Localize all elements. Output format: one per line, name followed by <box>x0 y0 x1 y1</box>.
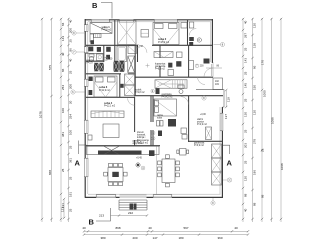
window left W2 <box>84 47 89 54</box>
window right W12 <box>220 113 224 131</box>
svg-text:25: 25 <box>260 148 264 152</box>
soba3 label <box>99 85 111 92</box>
right dimension chain line 5 <box>280 18 284 222</box>
circled marker 6 left <box>71 90 85 94</box>
wc room door arc <box>189 29 196 36</box>
svg-text:soba: soba <box>157 118 163 120</box>
room1 tall cabinet <box>90 34 94 42</box>
svg-text:203: 203 <box>243 143 247 148</box>
svg-text:575: 575 <box>48 65 52 70</box>
bath machines dark pair <box>114 61 125 72</box>
outer wall bottom <box>85 196 223 198</box>
svg-text:25: 25 <box>243 129 247 133</box>
left dimension chain line 3 <box>60 18 65 222</box>
interior wall: top rooms bottom y45 <box>86 44 138 46</box>
svg-text:B: B <box>89 218 95 227</box>
left dimension chain line 4 <box>67 18 72 222</box>
svg-text:40: 40 <box>61 52 65 56</box>
svg-text:garderoba: garderoba <box>155 65 166 68</box>
svg-text:P=2,9: P=2,9 <box>87 63 94 65</box>
svg-text:garderoba: garderoba <box>194 142 205 145</box>
guest room dresser dark <box>157 119 177 127</box>
dining floor edge line <box>156 146 158 194</box>
outer wall right upper block <box>211 19 213 63</box>
window left W5 <box>84 158 89 177</box>
door dim 7-200 <box>195 64 222 68</box>
svg-text:40: 40 <box>243 208 247 212</box>
svg-text:25: 25 <box>243 47 247 51</box>
window left W3 <box>84 79 89 87</box>
svg-text:88: 88 <box>260 194 264 198</box>
outer wall right lower inner face <box>219 107 221 194</box>
right dimension chain line 3 <box>260 18 266 222</box>
window top W8 <box>154 19 178 23</box>
terrace door right <box>204 64 214 77</box>
interior wall: laundry bottom / soba3 top y73.5 <box>86 73 121 75</box>
corridor small box <box>177 52 183 58</box>
entry box <box>213 78 223 90</box>
corridor door 1-90 <box>136 45 147 53</box>
svg-text:254: 254 <box>61 85 65 90</box>
interior wall: room2 right x186 <box>187 20 189 45</box>
interior wall: bath dividers <box>103 45 105 62</box>
small circles markers mid <box>151 89 154 93</box>
circled marker 8 outside right wall <box>214 42 225 46</box>
soba4 wardrobe strip <box>91 111 124 118</box>
circled marker 8 terrace <box>202 96 206 100</box>
svg-text:25: 25 <box>61 168 65 172</box>
small side table with chairs <box>177 149 189 156</box>
interior wall: room1/room2 divider <box>114 20 116 45</box>
circled marker 8 right top <box>197 38 201 42</box>
svg-text:180: 180 <box>178 236 183 240</box>
left dimension chain line 2 <box>48 18 53 222</box>
outer wall top inner face <box>88 21 211 23</box>
svg-text:25: 25 <box>69 39 73 43</box>
closet garderoba X <box>118 21 137 45</box>
svg-text:137: 137 <box>224 114 228 119</box>
porch door bottom <box>120 195 147 198</box>
svg-text:170: 170 <box>260 60 264 65</box>
svg-text:40: 40 <box>243 20 247 24</box>
stairs <box>155 80 187 88</box>
wc room fixtures dark <box>189 37 194 46</box>
corridor closet X tall <box>125 74 135 96</box>
outer wall left <box>84 19 86 198</box>
shaft lower dark box <box>120 84 123 88</box>
laundry machines <box>87 59 104 71</box>
svg-text:120: 120 <box>253 23 257 28</box>
soba3 bed <box>94 76 117 97</box>
kitchen label <box>133 140 144 146</box>
svg-text:232: 232 <box>128 211 133 215</box>
window left W1 <box>84 25 89 32</box>
svg-text:200: 200 <box>69 84 73 89</box>
svg-text:254: 254 <box>69 114 73 119</box>
room2 nightstand left <box>141 30 149 38</box>
entry door arc <box>198 77 206 85</box>
svg-text:278: 278 <box>253 139 257 144</box>
svg-text:B: B <box>92 1 98 10</box>
svg-text:130: 130 <box>243 112 247 117</box>
guest room label <box>162 93 174 99</box>
wc1 toilet <box>97 47 101 52</box>
window bottom W10 <box>96 195 116 198</box>
wc2 toilet <box>106 47 111 52</box>
porch dim 121 <box>61 198 66 219</box>
interior wall: guest room divider x188.5 <box>188 96 190 143</box>
svg-text:soba 2: soba 2 <box>158 37 167 41</box>
bottom dimension chain line 1 <box>82 226 249 232</box>
svg-text:prostor: prostor <box>197 121 204 124</box>
svg-text:186: 186 <box>253 170 257 175</box>
soba4 door arc <box>128 98 135 105</box>
svg-text:213: 213 <box>99 214 104 218</box>
wardrobe column X boxes <box>212 144 222 185</box>
circled marker electrical right <box>223 178 232 182</box>
left wall cabinet box <box>88 135 92 140</box>
corridor sink dark <box>156 89 160 95</box>
svg-text:1000: 1000 <box>263 90 267 97</box>
svg-text:soba 4: soba 4 <box>104 101 113 105</box>
interior wall: corridor/guest double <box>150 96 152 123</box>
svg-text:86: 86 <box>253 65 257 69</box>
svg-text:191: 191 <box>69 192 73 197</box>
svg-text:100: 100 <box>69 130 73 135</box>
soba3 dresser dark <box>89 90 93 95</box>
soba4 table <box>103 124 119 138</box>
right dimension chain line 1 <box>242 18 248 222</box>
interior wall: soba4 right x134.5 <box>134 97 136 132</box>
svg-text:147: 147 <box>152 236 157 240</box>
interior wall: right corridor bottom y77 <box>135 76 188 78</box>
svg-text:25: 25 <box>69 208 73 212</box>
dining table 2 with chairs <box>158 155 180 187</box>
svg-text:+0,45: +0,45 <box>136 158 142 160</box>
bottom dimension chain line 2 <box>83 233 249 240</box>
svg-text:40: 40 <box>234 226 238 230</box>
terrace outline <box>196 62 231 119</box>
outer wall top <box>85 19 213 21</box>
outer wall bottom inner face <box>88 193 221 195</box>
interior wall: corridor left x135 <box>134 45 136 96</box>
svg-text:gostinjska: gostinjska <box>162 93 173 96</box>
soba3 nightstand dark <box>89 77 93 82</box>
svg-text:40: 40 <box>148 226 152 230</box>
svg-text:25: 25 <box>69 176 73 180</box>
svg-text:praona: praona <box>87 59 95 62</box>
svg-text:20: 20 <box>69 100 73 104</box>
light cross <box>146 64 150 68</box>
wc1 split wall <box>86 52 104 54</box>
window left W4 <box>84 120 89 134</box>
svg-text:150: 150 <box>253 85 257 90</box>
svg-text:360: 360 <box>217 236 222 240</box>
lower hall label <box>194 142 205 148</box>
circled marker 9 living <box>141 166 145 170</box>
section marker B bottom <box>89 208 111 227</box>
circled marker 4 living <box>136 163 140 167</box>
svg-text:25: 25 <box>69 145 73 149</box>
window bottom W11 <box>153 195 172 198</box>
svg-text:380: 380 <box>100 236 105 240</box>
outer wall right upper inner face <box>210 22 212 62</box>
wc bottom sink dark <box>204 59 210 64</box>
svg-text:88: 88 <box>253 202 257 206</box>
outer wall right lower block <box>221 107 223 198</box>
bath tub vertical <box>117 46 127 62</box>
svg-text:1078: 1078 <box>39 111 43 118</box>
svg-text:287: 287 <box>243 33 247 38</box>
circled markers stacked left <box>151 131 155 140</box>
right dimension chain line 4 <box>270 18 274 222</box>
corridor dresser with X <box>154 52 173 58</box>
section marker A right <box>223 145 233 167</box>
interior wall: soba3 right x120 <box>119 74 121 98</box>
svg-text:88: 88 <box>243 193 247 197</box>
left dimension chain line 1 <box>39 18 44 222</box>
svg-text:40: 40 <box>82 226 86 230</box>
dark speaker box <box>158 131 162 137</box>
interior wall: corridor top y62 <box>86 60 104 62</box>
guest room desk <box>181 128 187 139</box>
interior wall: lower rooms top y95.5 <box>134 95 223 97</box>
svg-text:P=11,9 m2: P=11,9 m2 <box>99 90 111 92</box>
svg-text:381: 381 <box>69 158 73 163</box>
svg-text:84: 84 <box>61 22 65 26</box>
svg-text:P=3,9 m2: P=3,9 m2 <box>194 145 204 147</box>
corridor door labels <box>95 57 113 68</box>
svg-text:898: 898 <box>115 226 120 230</box>
porch steps <box>119 200 147 210</box>
svg-text:soba 3: soba 3 <box>99 85 108 89</box>
entry hall labels <box>197 114 207 126</box>
guest room bed <box>154 99 177 116</box>
svg-text:121: 121 <box>61 207 65 212</box>
room1 dresser dark <box>91 40 95 44</box>
wc lower small room <box>178 85 184 94</box>
kitchen counter <box>87 146 160 154</box>
window top W6 <box>91 19 110 23</box>
svg-text:boravak,: boravak, <box>137 134 146 137</box>
svg-text:soba 1: soba 1 <box>102 25 111 29</box>
svg-text:1088: 1088 <box>270 117 274 124</box>
svg-text:P=4,9 m2: P=4,9 m2 <box>197 124 207 126</box>
svg-text:+0,00: +0,00 <box>200 114 206 116</box>
svg-text:A: A <box>75 159 81 168</box>
interior wall: corridor right x160 upper <box>159 45 161 58</box>
wc2 sink <box>106 55 110 60</box>
wc1 sink <box>88 47 93 52</box>
svg-text:25: 25 <box>243 160 247 164</box>
room1 label <box>102 25 112 32</box>
svg-text:25: 25 <box>243 98 247 102</box>
svg-text:40: 40 <box>69 19 73 23</box>
guest room door arc <box>181 97 189 105</box>
section marker A left <box>75 141 87 168</box>
corridor hodnik label <box>135 90 145 95</box>
svg-text:donji elem.: donji elem. <box>133 143 144 145</box>
svg-text:119: 119 <box>227 97 231 102</box>
svg-text:86: 86 <box>61 68 65 72</box>
entry step wall <box>188 76 213 78</box>
svg-text:100: 100 <box>61 108 65 113</box>
window top W7 <box>119 19 134 23</box>
svg-text:P=15,3 m2: P=15,3 m2 <box>158 42 170 44</box>
room2 nightstand divider <box>141 32 149 34</box>
svg-text:1068: 1068 <box>280 163 284 170</box>
room2 right nightstand <box>181 23 187 29</box>
room1 desk with diagonal <box>90 23 112 34</box>
room1 wardrobe strip <box>94 34 102 38</box>
svg-text:A: A <box>227 159 233 168</box>
room2 bed <box>153 23 179 45</box>
upper bath fixtures <box>155 61 194 76</box>
svg-text:P=14,2 m2: P=14,2 m2 <box>162 97 174 99</box>
svg-text:143: 143 <box>243 58 247 63</box>
svg-text:P=9,8 m2: P=9,8 m2 <box>102 30 112 32</box>
svg-text:25: 25 <box>69 70 73 74</box>
hall text block <box>137 132 149 144</box>
counter end dark appliance <box>149 150 155 156</box>
circled marker 8 bottom <box>211 198 215 205</box>
svg-text:120: 120 <box>243 176 247 181</box>
svg-text:597: 597 <box>183 226 188 230</box>
svg-text:120: 120 <box>253 110 257 115</box>
svg-text:200: 200 <box>132 236 137 240</box>
svg-text:25: 25 <box>243 71 247 75</box>
porch dim 232 <box>110 211 148 217</box>
svg-text:868: 868 <box>48 170 52 175</box>
svg-text:radna: radna <box>157 114 164 117</box>
svg-text:P=9,8 m2: P=9,8 m2 <box>135 92 145 94</box>
soba4 label <box>104 101 116 108</box>
children room wardrobe X <box>206 127 212 140</box>
bath shower <box>128 46 137 54</box>
dining table 1 with chairs <box>104 163 127 185</box>
wc1 toilet bowl <box>89 54 94 62</box>
right dimension chain line 2 <box>251 18 256 222</box>
circled marker 8 left top <box>72 31 85 35</box>
svg-text:P=6,3 m2: P=6,3 m2 <box>155 69 165 71</box>
svg-text:40: 40 <box>69 58 73 62</box>
wc room shelf <box>189 22 194 28</box>
room2 label <box>158 37 170 44</box>
outer wall left inner face <box>87 22 89 194</box>
wc1 shower <box>97 54 104 61</box>
circled marker 7 left <box>72 50 85 54</box>
interior wall: soba3 bottom y97 <box>86 96 135 98</box>
interior wall: hall right x153 <box>152 96 154 123</box>
guest room text block <box>157 114 164 120</box>
svg-text:145: 145 <box>243 83 247 88</box>
interior wall: wc divider x188.6 upper <box>188 45 190 77</box>
svg-text:143: 143 <box>61 36 65 41</box>
interior wall: kitchen top y145.5 <box>86 145 160 147</box>
svg-text:381: 381 <box>61 132 65 137</box>
section marker B top <box>92 1 112 18</box>
bath tall closet X <box>128 56 135 73</box>
svg-text:138: 138 <box>253 43 257 48</box>
svg-text:P=12,1 m2: P=12,1 m2 <box>104 106 116 108</box>
interior wall: entry hall bottom y141 <box>188 140 223 142</box>
